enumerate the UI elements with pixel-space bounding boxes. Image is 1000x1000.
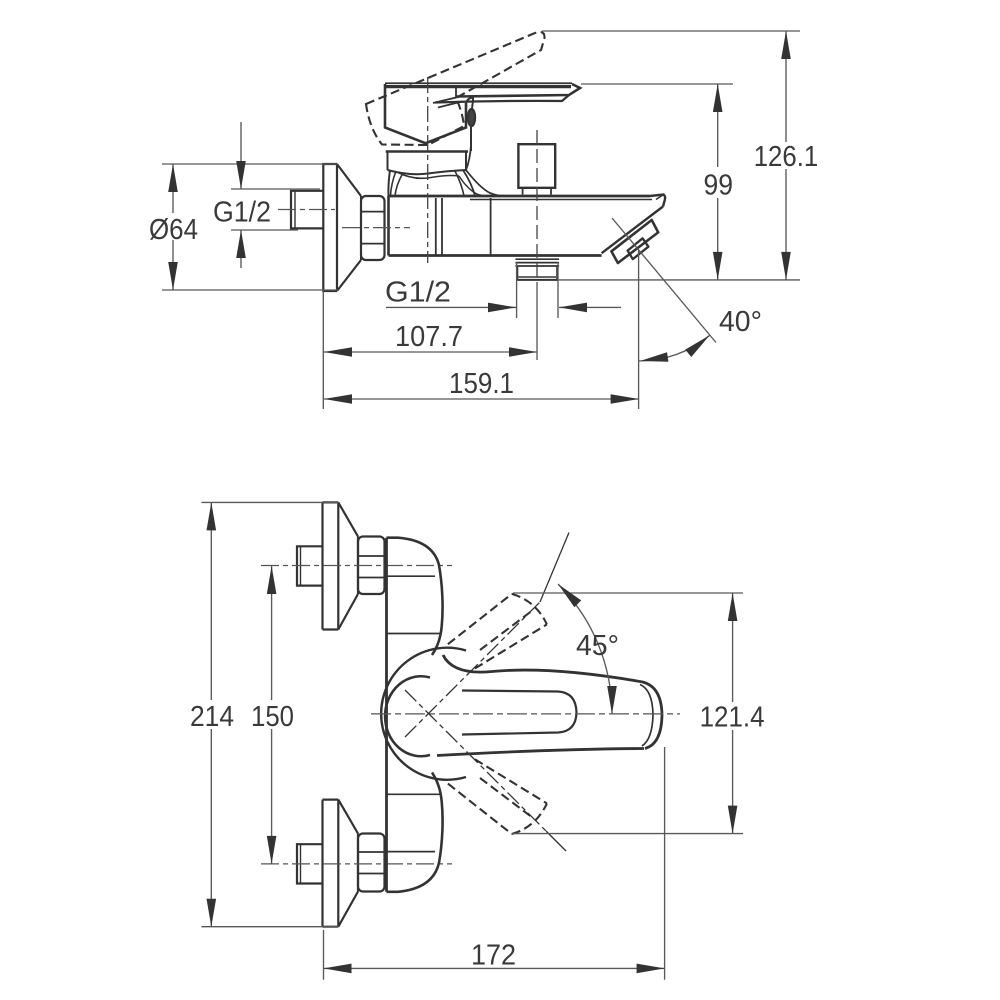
svg-text:40°: 40° — [719, 306, 762, 338]
cartridge dome — [385, 84, 466, 143]
body boss lines — [387, 575, 436, 577]
40 deg slanted reference — [612, 218, 716, 343]
lever end cap inner arc — [640, 685, 653, 747]
spout cut face (40 deg) — [602, 207, 663, 254]
arrow 150 down — [267, 836, 277, 864]
shower nipple below — [515, 259, 559, 266]
faucet body (side view) — [387, 196, 390, 256]
arrow 126.1 down — [781, 252, 791, 280]
centerline cartridge vertical — [427, 77, 429, 263]
dim 126.1 line — [785, 31, 787, 280]
faucet body (front view) — [385, 538, 388, 892]
dim 172 line — [324, 967, 665, 969]
svg-text:214: 214 — [190, 701, 234, 733]
dim 214 extensions — [201, 502, 338, 926]
arrows (bottom view) — [207, 502, 738, 973]
arrow 40deg arc left — [640, 352, 668, 362]
dim 214 line — [210, 502, 212, 926]
wall extension vertical — [322, 291, 324, 409]
pivot screw cover — [468, 109, 475, 126]
body joint lines — [436, 198, 442, 255]
lower pipe end — [297, 844, 323, 883]
arrow 214 up — [207, 502, 217, 530]
arrows (top view) — [168, 31, 791, 404]
arrow 172 left — [324, 964, 352, 974]
centerline shower outlet — [536, 130, 538, 283]
arrow G1/2 up — [236, 230, 246, 258]
svg-text:G1/2: G1/2 — [213, 197, 271, 229]
lower flange cone — [338, 800, 358, 927]
cartridge collar — [386, 150, 468, 152]
arrow 150 up — [267, 566, 277, 594]
dim 172 extensions — [324, 747, 665, 980]
dim 99 line — [717, 84, 719, 280]
wall nut — [361, 196, 385, 260]
dim 121.4 extensions — [512, 593, 743, 834]
svg-text:45°: 45° — [576, 630, 619, 662]
svg-text:159.1: 159.1 — [449, 368, 514, 400]
dim G1/2 wall line — [240, 122, 242, 268]
arrow 45deg arc top — [558, 584, 581, 607]
arrow 99 down — [713, 252, 723, 280]
svg-text:G1/2: G1/2 — [385, 277, 451, 309]
arrow shower G1/2 right-point — [488, 303, 516, 313]
shower outlet block — [518, 144, 555, 188]
centerline body axis — [342, 227, 410, 229]
shower G1/2 extension verticals — [517, 262, 558, 318]
dim 121.4 line — [732, 593, 734, 834]
threaded pipe G1/2 — [291, 191, 323, 229]
40 deg arc — [639, 335, 710, 361]
handle neck — [466, 98, 473, 152]
lower hex nut — [358, 834, 385, 892]
40 deg vertical reference — [638, 250, 640, 409]
handle lever (solid, closed position) — [385, 82, 572, 84]
svg-text:107.7: 107.7 — [395, 321, 463, 353]
upper flange cone — [338, 502, 358, 629]
arrow 107.7 right — [509, 347, 537, 357]
upper pipe end — [297, 546, 323, 585]
arrow 159.1 right — [611, 394, 639, 404]
spout tip wedge — [650, 195, 665, 207]
upper hex nut — [358, 537, 385, 595]
sculpted transition curves — [388, 170, 467, 174]
arrow G1/2 down — [236, 161, 246, 189]
arrow Ø64 up — [168, 164, 178, 192]
arrow 121.4 up — [728, 593, 738, 621]
arrow 159.1 left — [324, 394, 352, 404]
svg-text:150: 150 — [251, 701, 294, 733]
diverter end cap — [611, 220, 658, 263]
dim 126.1 top extension — [542, 30, 800, 32]
arrow 126.1 up — [781, 31, 791, 59]
arrow shower G1/2 left-point — [559, 303, 587, 313]
svg-text:Ø64: Ø64 — [149, 214, 198, 246]
bottom reference extension — [557, 279, 800, 281]
dim 159.1 line — [324, 398, 639, 400]
svg-text:99: 99 — [704, 170, 734, 202]
handle raised (dashed outline) — [366, 32, 545, 145]
arrow 40deg arc right — [685, 335, 710, 357]
svg-text:126.1: 126.1 — [754, 141, 819, 173]
dim 99 extension line — [581, 83, 733, 85]
handle lever solid — [443, 655, 642, 682]
dashed lever up 45 — [448, 594, 547, 669]
svg-text:172: 172 — [471, 940, 516, 972]
dim Ø64 line — [172, 164, 174, 290]
dim G1/2 wall extension lines — [231, 189, 320, 230]
handle inner edge — [462, 691, 577, 735]
arrow 214 down — [207, 899, 217, 927]
45 deg arc — [558, 584, 612, 714]
hub escutcheon circle — [381, 648, 466, 780]
diverter knob — [628, 238, 649, 259]
axes bottom view — [371, 713, 680, 715]
centerline pipe axis — [278, 209, 335, 211]
shower G1/2 dim line — [386, 306, 621, 308]
arrow 99 up — [713, 84, 723, 112]
arrow 107.7 left — [324, 347, 352, 357]
dashed lever down 45 — [448, 759, 547, 834]
upper pipe centerline — [261, 565, 452, 567]
dim Ø64 extension lines — [162, 164, 338, 290]
arrow 121.4 down — [728, 806, 738, 834]
lower pipe centerline — [261, 863, 452, 865]
wall flange (escutcheon, side view) — [323, 164, 337, 291]
upper wall flange plate — [323, 502, 339, 629]
lower wall flange plate — [323, 800, 339, 927]
arrow 45deg arc bottom — [607, 686, 617, 714]
dim 150 line — [271, 566, 273, 864]
arrow Ø64 down — [168, 262, 178, 290]
handle ball — [385, 676, 430, 756]
svg-text:121.4: 121.4 — [700, 701, 765, 733]
dim 107.7 line — [324, 351, 537, 353]
arrow 172 right — [637, 964, 665, 974]
